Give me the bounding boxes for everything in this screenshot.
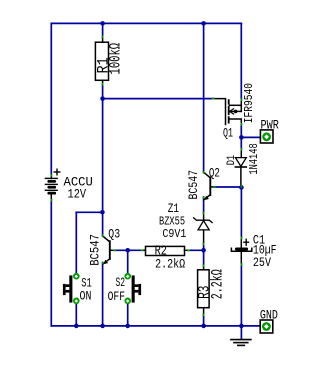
svg-text:Z1: Z1 [168,202,179,216]
svg-text:Q3: Q3 [108,228,120,242]
svg-text:S1: S1 [81,277,92,291]
svg-text:BC547: BC547 [186,170,201,200]
svg-text:1N4148: 1N4148 [248,143,261,174]
svg-text:100kΩ: 100kΩ [106,43,124,75]
svg-text:25V: 25V [253,256,271,270]
svg-text:GND: GND [260,308,278,322]
svg-text:2.2kΩ: 2.2kΩ [155,257,185,271]
svg-text:2.2kΩ: 2.2kΩ [209,269,227,299]
svg-text:12V: 12V [68,188,87,202]
svg-text:BC547: BC547 [88,234,103,266]
svg-text:IFR9540: IFR9540 [242,83,256,123]
svg-text:D1: D1 [226,155,238,166]
svg-text:Q2: Q2 [209,167,220,181]
svg-text:C9V1: C9V1 [162,227,186,241]
svg-text:ON: ON [80,290,92,304]
svg-text:PWR: PWR [261,118,280,132]
svg-text:S2: S2 [116,276,126,290]
svg-text:Q1: Q1 [223,126,233,140]
svg-text:OFF: OFF [108,290,126,304]
